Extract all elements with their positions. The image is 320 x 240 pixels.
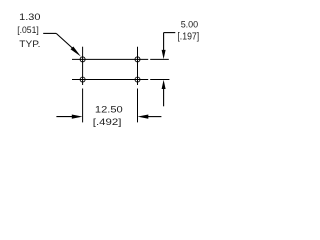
hole H2 top-right: [135, 57, 140, 62]
wire: bottom hole-row center line: [72, 79, 148, 81]
arrowhead right at left extension line: [72, 115, 83, 119]
hole H1 top-left: [80, 57, 85, 62]
dimension 12.50 left tail: [56, 116, 74, 118]
hole H4 bottom-right: [135, 77, 140, 82]
leader line for 1.30 TYP callout: [43, 33, 74, 49]
svg-text:[.197]: [.197]: [177, 32, 199, 43]
svg-text:[.051]: [.051]: [17, 25, 39, 36]
svg-text:[.492]: [.492]: [93, 117, 122, 128]
dimension 5.00 upper leader: [164, 33, 176, 51]
hole H3 bottom-left: [80, 77, 85, 82]
wire: lower right extension line: [150, 79, 169, 81]
dimension 5.00 lower leader: [163, 88, 165, 107]
svg-text:TYP.: TYP.: [19, 39, 40, 50]
dimension 12.50 right tail: [147, 116, 162, 118]
wire: left extension line below: [82, 89, 84, 123]
wire: top hole-row center line: [72, 58, 148, 60]
leader arrowhead pointing at hole H1: [71, 47, 82, 57]
arrowhead down at top extension line: [162, 50, 166, 59]
wire: left hole-column center line: [82, 47, 84, 85]
svg-text:1.30: 1.30: [19, 12, 40, 23]
wire: upper right extension line: [150, 58, 169, 60]
wire: right hole-column center line: [137, 47, 139, 85]
wire: right extension line below: [137, 89, 139, 123]
svg-text:5.00: 5.00: [181, 20, 199, 31]
arrowhead up at bottom extension line: [162, 80, 166, 89]
svg-text:12.50: 12.50: [95, 105, 123, 116]
arrowhead left at right extension line: [138, 115, 149, 119]
